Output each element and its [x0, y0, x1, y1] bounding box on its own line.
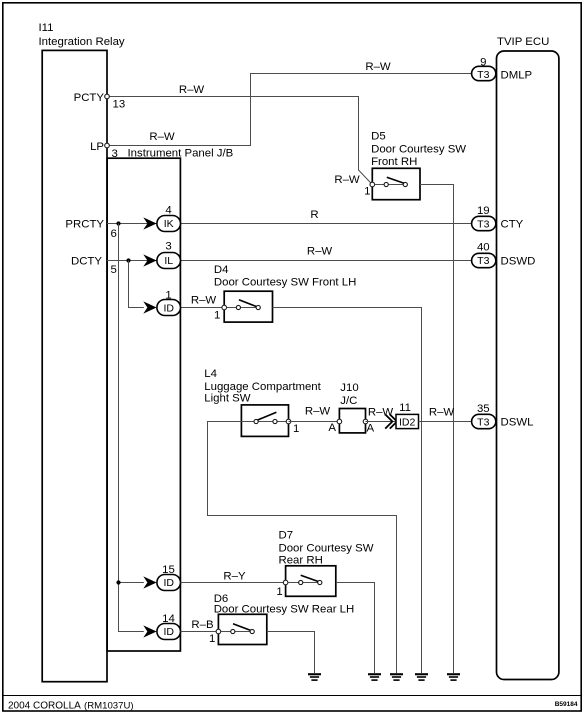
connector oval IL pin 3 [157, 253, 181, 269]
svg-text:R–W: R–W [429, 406, 455, 418]
svg-text:T3: T3 [477, 219, 489, 231]
svg-text:A: A [366, 422, 374, 434]
junction connector J10 box [339, 409, 365, 433]
svg-text:Front RH: Front RH [371, 156, 417, 168]
svg-text:14: 14 [162, 613, 175, 625]
switch D5 box [372, 168, 420, 199]
svg-text:3: 3 [112, 148, 118, 160]
TVIP ECU box [497, 51, 559, 680]
J10 pin A left [337, 419, 342, 424]
switch D5 contacts and lever [375, 184, 404, 186]
switch L4 contacts and lever [241, 421, 288, 423]
svg-text:L4: L4 [204, 368, 217, 380]
svg-text:Rear RH: Rear RH [279, 555, 323, 567]
svg-text:R–W: R–W [149, 131, 175, 143]
wire D4 to ground [273, 308, 422, 674]
T3 connector DSWD pin 40 [472, 253, 496, 267]
svg-text:Door Courtesy SW Front LH: Door Courtesy SW Front LH [214, 277, 356, 289]
wire L4 to J10 (R-W) [289, 421, 340, 423]
svg-text:19: 19 [477, 205, 490, 217]
svg-text:6: 6 [111, 228, 117, 240]
switch D4 pin 1 [222, 305, 227, 310]
wire ID1 to D4 (R-W) [181, 307, 225, 309]
svg-text:A: A [328, 422, 336, 434]
svg-text:R–W: R–W [305, 406, 331, 418]
wire PCTY to D5 (R-W) [107, 97, 372, 185]
svg-text:9: 9 [480, 57, 486, 69]
T3 connector DSWL pin 35 [472, 414, 496, 428]
connector oval ID pin 1 [157, 300, 181, 316]
connector chevrons into ID2 [385, 414, 392, 428]
pin PCTY circle 13 [105, 94, 110, 99]
caption separator line [3, 695, 581, 697]
switch D7 box [286, 566, 336, 597]
svg-text:1: 1 [364, 185, 370, 197]
svg-text:R–Y: R–Y [223, 571, 246, 583]
wire LP to DMLP (R-W) [107, 74, 472, 146]
svg-text:PRCTY: PRCTY [65, 219, 104, 231]
svg-text:Integration Relay: Integration Relay [39, 36, 125, 48]
switch D4 box [224, 291, 272, 322]
svg-text:ID2: ID2 [399, 417, 416, 429]
wire PRCTY to IK [107, 223, 157, 225]
svg-text:3: 3 [165, 241, 171, 253]
instrument panel J/B box [107, 158, 180, 651]
connector arrow IK [143, 217, 156, 229]
svg-text:D7: D7 [279, 530, 294, 542]
ground D6 [308, 673, 321, 681]
svg-text:4: 4 [165, 205, 171, 217]
switch L4 pin 1 [286, 419, 291, 424]
svg-text:J10: J10 [340, 382, 358, 394]
switch D6 box [218, 614, 266, 644]
wire J10 to ID2 (R-W) [366, 421, 397, 423]
svg-text:PCTY: PCTY [74, 92, 105, 104]
svg-text:ID: ID [163, 303, 174, 315]
svg-text:R–W: R–W [191, 295, 217, 307]
junction dot PRCTY [116, 221, 120, 225]
switch D7 pin 1 [283, 580, 288, 585]
svg-text:R–W: R–W [179, 84, 205, 96]
J10 pin A right [363, 419, 368, 424]
svg-text:LP: LP [90, 141, 104, 153]
svg-text:1: 1 [276, 586, 282, 598]
svg-text:R–B: R–B [191, 619, 213, 631]
ground D5 [447, 673, 460, 681]
integration relay I11 box [42, 50, 107, 681]
svg-text:T3: T3 [477, 69, 489, 81]
svg-text:DSWL: DSWL [501, 417, 534, 429]
svg-text:IL: IL [164, 255, 173, 267]
connector arrow IL [143, 254, 156, 266]
pin LP circle 3 [105, 143, 110, 148]
svg-text:R–W: R–W [365, 61, 391, 73]
svg-text:B59184: B59184 [555, 701, 578, 708]
svg-text:ID: ID [163, 577, 174, 589]
ground D4 [415, 673, 428, 681]
svg-text:ID: ID [163, 626, 174, 638]
svg-text:TVIP ECU: TVIP ECU [497, 36, 549, 48]
svg-text:T3: T3 [477, 417, 489, 429]
svg-text:DSWD: DSWD [501, 255, 536, 267]
svg-text:R–W: R–W [368, 406, 394, 418]
svg-text:R: R [310, 209, 318, 221]
svg-text:CTY: CTY [501, 219, 524, 231]
wire DCTY branch down to ID1 [129, 261, 144, 308]
wire D5 to ground [420, 185, 454, 674]
svg-text:1: 1 [165, 289, 171, 301]
ground D7 [368, 673, 381, 681]
svg-text:1: 1 [293, 423, 299, 435]
switch D6 contacts and lever [221, 631, 250, 633]
svg-text:11: 11 [399, 402, 411, 414]
svg-text:35: 35 [477, 403, 490, 415]
svg-text:IK: IK [164, 218, 174, 230]
wire IK to CTY (R) [181, 223, 472, 225]
switch D4 contacts and lever [227, 307, 257, 309]
switch D6 pin 1 [216, 629, 221, 634]
wire DCTY to IL [107, 260, 157, 262]
wire PRCTY branch down to ID15 and ID14 [119, 224, 144, 632]
svg-text:40: 40 [477, 242, 490, 254]
T3 connector DMLP pin 9 [472, 66, 496, 80]
connector oval ID pin 14 [157, 624, 181, 640]
switch L4 box [241, 405, 288, 437]
svg-text:D5: D5 [371, 131, 386, 143]
connector oval IK pin 4 [157, 216, 181, 232]
wire L4 left to ground [208, 422, 397, 674]
junction dot ID15 branch [116, 580, 120, 584]
connector ID2 box pin 11 [396, 414, 419, 428]
svg-text:DMLP: DMLP [501, 69, 533, 81]
svg-text:13: 13 [113, 99, 126, 111]
svg-text:1: 1 [214, 310, 220, 322]
wire ID14 to D6 (R-B) [181, 631, 219, 633]
ground L4 [390, 673, 403, 681]
wire D6 to ground [267, 632, 315, 674]
svg-text:DCTY: DCTY [71, 256, 102, 268]
wire D7 to ground [336, 583, 375, 674]
wire ID15 to D7 (R-Y) [181, 582, 286, 584]
svg-text:J/C: J/C [340, 395, 357, 407]
svg-text:Door Courtesy SW: Door Courtesy SW [279, 543, 374, 555]
connector arrow ID pin1 [143, 301, 156, 313]
svg-text:5: 5 [111, 264, 117, 276]
svg-text:R–W: R–W [334, 174, 360, 186]
svg-text:(RM1037U): (RM1037U) [84, 700, 134, 711]
svg-text:R–W: R–W [307, 246, 333, 258]
svg-text:15: 15 [162, 564, 175, 576]
switch D5 pin 1 [370, 182, 375, 187]
svg-text:Luggage Compartment: Luggage Compartment [204, 381, 321, 393]
wire ID2 to DSWL (R-W) [419, 421, 472, 423]
svg-text:Light SW: Light SW [204, 393, 250, 405]
svg-text:1: 1 [209, 633, 215, 645]
junction dot DCTY [126, 258, 130, 262]
svg-text:Door Courtesy SW: Door Courtesy SW [371, 144, 466, 156]
svg-text:I11: I11 [39, 22, 54, 34]
switch D7 contacts and lever [288, 582, 318, 584]
svg-text:D4: D4 [214, 264, 229, 276]
T3 connector CTY pin 19 [472, 216, 496, 230]
svg-text:2004 COROLLA: 2004 COROLLA [8, 700, 81, 711]
connector arrow ID pin15 [143, 576, 156, 588]
connector arrow ID pin14 [143, 625, 156, 637]
connector oval ID pin 15 [157, 575, 181, 591]
svg-text:T3: T3 [477, 255, 489, 267]
wire IL to DSWD (R-W) [181, 260, 472, 262]
